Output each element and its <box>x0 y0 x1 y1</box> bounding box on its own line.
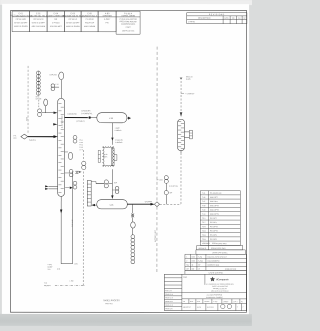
svg-text:2: 2 <box>186 260 187 262</box>
equipment header box P-302 compressors (wide) <box>116 11 140 34</box>
svg-text:0.4MPaG: 0.4MPaG <box>115 142 123 144</box>
svg-text:ANO CADWN: ANO CADWN <box>84 25 96 28</box>
svg-text:9600 OPTS: 9600 OPTS <box>210 209 220 211</box>
exchanger E-02 side reboiler <box>184 130 192 139</box>
svg-text:T-10: T-10 <box>202 214 205 216</box>
vessel V-03 reflux drum <box>97 113 127 123</box>
instrument bubble lower <box>68 152 72 159</box>
svg-text:USB: USB <box>192 260 195 262</box>
svg-text:T-3: T-3 <box>183 301 185 303</box>
wire: overhead vapour line to V-03 <box>65 117 88 119</box>
svg-text:1 RM-01: 1 RM-01 <box>188 21 195 23</box>
svg-text:STARTL GRAN: STARTL GRAN <box>121 14 135 17</box>
svg-text:SPEAR CPIG 7MG: SPEAR CPIG 7MG <box>211 247 226 250</box>
svg-text:T-05: T-05 <box>202 197 205 199</box>
column E-01 (main distillation column) <box>58 98 65 196</box>
svg-text:S-01: S-01 <box>13 135 16 137</box>
svg-text:SHEET: SHEET <box>223 301 228 303</box>
svg-text:C-06: C-06 <box>104 154 108 156</box>
svg-text:LHC 2001: LHC 2001 <box>207 307 214 309</box>
svg-text:9600 OPT: 9600 OPT <box>210 201 218 203</box>
svg-text:T-07: T-07 <box>202 201 205 203</box>
svg-text:1:100: 1:100 <box>213 301 217 303</box>
svg-text:USB: USB <box>192 256 195 258</box>
svg-text:Gasolina: Gasolina <box>29 140 36 142</box>
valve and instruments below product line <box>132 204 134 213</box>
wire: dashed overhead to E-02 <box>180 78 182 113</box>
svg-text:T2-1: T2-1 <box>202 218 206 220</box>
svg-text:CRUDE: CRUDE <box>36 98 42 100</box>
svg-text:CIP 63 GCN: CIP 63 GCN <box>33 19 44 21</box>
stamp circles <box>221 304 225 308</box>
svg-text:T-01: T-01 <box>44 283 47 285</box>
svg-text:EXPLAIN: EXPLAIN <box>50 73 58 76</box>
svg-text:GASPPM: GASPPM <box>145 200 153 203</box>
node: feed diamond D1 <box>21 134 28 139</box>
E-06 side channel <box>98 150 100 162</box>
svg-text:T-08: T-08 <box>202 205 205 207</box>
svg-text:4463 126 DIURN: 4463 126 DIURN <box>66 26 80 28</box>
svg-text:66*56-6 43 MPF: 66*56-6 43 MPF <box>14 22 28 24</box>
mini column T-07 segmented <box>87 180 91 206</box>
node: arrow into mini column bottom <box>91 204 95 206</box>
svg-text:R E V I S I O N S: R E V I S I O N S <box>209 14 225 16</box>
svg-text:0.4MPaG: 0.4MPaG <box>115 130 122 132</box>
svg-text:4-P MSO: 4-P MSO <box>52 22 60 24</box>
wire: crude feed bold line into column <box>28 136 54 138</box>
table footer rows <box>197 245 243 249</box>
svg-text:CACHE CONTROL: CACHE CONTROL <box>209 271 224 274</box>
svg-text:PI-14: PI-14 <box>79 144 83 146</box>
svg-text:+ LT09F007: + LT09F007 <box>185 93 194 95</box>
svg-text:P/S OPS: P/S OPS <box>210 239 218 241</box>
instrument bubbles right of column <box>73 135 77 139</box>
node: bold arrows into column bottom <box>45 185 48 187</box>
node: V-03 outlet arrow <box>128 117 131 120</box>
wire: dashed line mid x83 <box>82 150 84 161</box>
svg-text:STARTER: STARTER <box>103 14 113 17</box>
svg-text:9600 OPTS: 9600 OPTS <box>210 205 220 207</box>
drawing frame border <box>10 10 246 312</box>
svg-text:TLP: TLP <box>48 269 51 271</box>
svg-text:DESCRIPTION: DESCRIPTION <box>198 18 211 20</box>
svg-text:4463 126 DIURN: 4463 126 DIURN <box>14 26 28 28</box>
instrument cluster at column lower right <box>69 169 73 173</box>
svg-text:V-05: V-05 <box>109 205 113 207</box>
svg-text:9600 OPTS: 9600 OPTS <box>210 214 220 216</box>
svg-text:2017: 2017 <box>190 301 194 303</box>
svg-text:P76: P76 <box>105 22 108 24</box>
column E-02 stripper <box>178 119 185 150</box>
svg-text:1: 1 <box>186 256 187 258</box>
svg-text:T-01: T-01 <box>202 193 205 195</box>
wire: mini column top line <box>91 181 104 183</box>
svg-text:SPEAR CPIG 7MG: SPEAR CPIG 7MG <box>212 242 227 245</box>
wire: column bottoms down <box>60 196 62 263</box>
instrument pair C <box>51 84 55 88</box>
node: BL diamond D2 <box>154 202 159 207</box>
node: arrow into E-02 top <box>180 112 183 117</box>
svg-text:PMD-1 W: PMD-1 W <box>165 290 172 292</box>
svg-text:SAGE1 PROCSS: SAGE1 PROCSS <box>103 299 120 302</box>
tiny label stack <box>79 140 83 152</box>
svg-text:0.15 MT RG: 0.15 MT RG <box>169 186 178 188</box>
svg-text:T-07 LINE: T-07 LINE <box>72 220 74 227</box>
svg-text:GASOLINA: GASOLINA <box>81 109 91 112</box>
wire: side draw line down <box>72 171 74 264</box>
exchanger E-06 air cooler (scalloped) <box>98 146 117 166</box>
svg-text:FRMD-CW: FRMD-CW <box>165 308 173 310</box>
wire: V-05 product line to BL <box>127 203 151 205</box>
wire: E-06 outlet down to V-05 <box>111 169 113 196</box>
vessel V-05 accumulator <box>97 200 128 209</box>
svg-text:1 GMP: 1 GMP <box>115 128 120 130</box>
svg-text:WP: WP <box>170 192 173 194</box>
svg-text:FI-09: FI-09 <box>79 147 83 149</box>
svg-text:1 OF 1: 1 OF 1 <box>233 301 238 303</box>
svg-text:CIP 46 GMO: CIP 46 GMO <box>16 19 27 21</box>
equipment header box E-05 <box>81 11 98 32</box>
instrument TRC top bubble <box>59 72 64 80</box>
node: feed nozzle arrow mid column <box>53 123 57 125</box>
svg-text:TI-22: TI-22 <box>79 142 83 144</box>
label W-01 <box>36 96 42 100</box>
wire: BL dashed vertical line right <box>156 47 158 202</box>
small cells row <box>182 302 247 304</box>
svg-text:P 6 MN10: P 6 MN10 <box>86 19 94 21</box>
svg-text:ilCompanie: ilCompanie <box>216 279 229 281</box>
equipment header box E-04 <box>47 11 66 32</box>
instrument chain TI stack <box>36 71 40 108</box>
instrument group AT <box>164 176 168 205</box>
equipment header box A-B3 <box>98 11 116 32</box>
svg-text:66*56-6 43 MPF: 66*56-6 43 MPF <box>32 22 46 24</box>
equipment header box E-03 <box>62 11 84 32</box>
svg-text:UREAM G: UREAM G <box>202 242 211 245</box>
svg-text:UREAM G: UREAM G <box>198 247 207 250</box>
svg-text:GASOLINA: GASOLINA <box>67 113 77 116</box>
svg-text:CRU: CRU <box>13 138 16 140</box>
equipment header box E-02 <box>30 11 48 32</box>
title block outer <box>164 274 246 310</box>
svg-text:IN MANUAL CAMPLE: IN MANUAL CAMPLE <box>206 296 223 299</box>
svg-text:100 PLUS KSC: 100 PLUS KSC <box>122 30 135 32</box>
svg-text:7: 7 <box>242 307 243 309</box>
svg-text:Mark: Mark <box>183 276 187 279</box>
instrument PI bubble <box>44 99 48 106</box>
equipment tag table <box>200 191 240 246</box>
svg-text:T-09: T-09 <box>202 209 205 211</box>
address lines <box>206 283 234 293</box>
svg-text:W-01: W-01 <box>36 96 40 98</box>
svg-text:G-PB17: G-PB17 <box>104 19 110 21</box>
svg-text:FRMD-C W: FRMD-C W <box>165 294 173 296</box>
svg-text:LC-3: LC-3 <box>79 149 82 151</box>
svg-text:FRMD-2 W: FRMD-2 W <box>165 301 173 303</box>
svg-text:0.4 0MPa7%L: 0.4 0MPa7%L <box>81 113 92 115</box>
wire: V-03 bottoms line down <box>111 123 113 145</box>
svg-text:T2-7: T2-7 <box>202 222 206 224</box>
revision table top right <box>187 13 247 24</box>
svg-text:COMPRESSORS: COMPRESSORS <box>121 24 136 26</box>
svg-text:9600 OPT: 9600 OPT <box>210 197 218 199</box>
svg-text:66*56-6 43 MPF: 66*56-6 43 MPF <box>66 22 80 24</box>
instrument LI double bubble <box>38 109 42 117</box>
svg-text:T: T <box>237 307 238 309</box>
svg-text:USAM CPW COOLL: USAM CPW COOLL <box>212 251 228 254</box>
bottom row with stamps <box>195 303 197 310</box>
svg-text:PS-1094/2-100: PS-1094/2-100 <box>210 193 221 195</box>
cache control strip <box>185 270 247 274</box>
svg-text:COMP: COMP <box>48 267 53 269</box>
svg-text:FRMD-C W: FRMD-C W <box>165 305 173 307</box>
svg-text:P/S OPTS: P/S OPTS <box>210 230 219 232</box>
svg-text:6*56-P63 MPT: 6*56-P63 MPT <box>50 26 63 28</box>
white sheet <box>2 4 249 314</box>
svg-text:Rev: Rev <box>186 265 189 267</box>
instrument pair on pump line <box>104 180 108 184</box>
instrument bubbles small <box>115 186 119 190</box>
svg-text:(1TO4LC): (1TO4LC) <box>77 121 85 123</box>
svg-text:FRMD-C W: FRMD-C W <box>165 297 173 299</box>
wire: instrument line to column with arrow <box>42 112 54 114</box>
svg-text:PROMPT: PROMPT <box>44 285 51 287</box>
svg-text:CIP 63 GC: CIP 63 GC <box>68 19 77 21</box>
revision sign rows <box>185 254 247 270</box>
svg-text:ANSA-KSP: ANSA-KSP <box>85 21 95 24</box>
svg-text:C-14: C-14 <box>55 84 58 86</box>
page background margins <box>0 0 252 326</box>
svg-text:WIP: WIP <box>114 182 117 184</box>
svg-text:P/S OPT: P/S OPT <box>210 218 217 220</box>
svg-text:P/S OPTS: P/S OPTS <box>210 226 219 228</box>
svg-text:1 PW: 1 PW <box>70 281 74 283</box>
equipment header box E-01 <box>10 11 33 32</box>
svg-text:P/S OPT: P/S OPT <box>210 222 217 224</box>
svg-text:P/S OPS: P/S OPS <box>210 235 218 237</box>
mark cell <box>204 274 206 285</box>
company logo <box>210 277 229 282</box>
svg-text:PG-1: PG-1 <box>79 140 83 142</box>
svg-text:SECTIN SEL TEL 3: SECTIN SEL TEL 3 <box>30 15 48 17</box>
wire: E-02 bottoms dashed down <box>180 151 182 154</box>
svg-text:E-01 SECTION: E-01 SECTION <box>62 115 64 128</box>
svg-text:(1.5): (1.5) <box>57 269 61 271</box>
wire: dash-dot bottom line <box>55 285 85 287</box>
svg-text:CONDSA SOL 3: CONDSA SOL 3 <box>82 14 97 17</box>
wire: dashed to E-02 bottoms junction <box>160 203 181 205</box>
wire: battery-limit dashed line left <box>27 66 29 134</box>
instrument pair on dashed line <box>82 161 86 165</box>
left label column rows <box>164 277 182 279</box>
instrument chain below valve <box>131 235 135 264</box>
svg-text:(2.5): (2.5) <box>74 263 78 265</box>
svg-text:4463 126 DIURN: 4463 126 DIURN <box>31 26 45 28</box>
wire: bottom connection <box>61 263 72 265</box>
